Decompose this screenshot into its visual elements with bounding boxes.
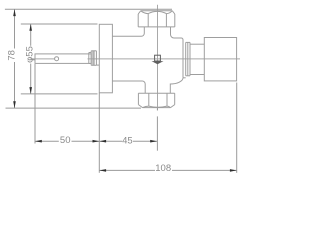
svg-text:45: 45	[122, 135, 133, 146]
svg-text:φ55: φ55	[24, 46, 35, 63]
svg-text:50: 50	[60, 135, 71, 146]
svg-text:108: 108	[155, 163, 171, 174]
svg-text:78: 78	[6, 50, 17, 61]
